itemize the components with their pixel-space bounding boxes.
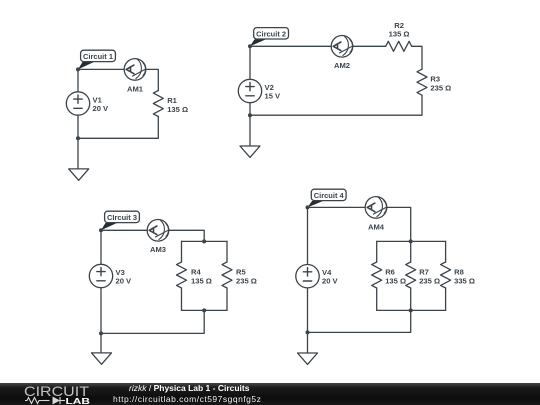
ground circuit 4 [298,353,318,364]
label Circuit 4 [308,189,347,207]
svg-text:135 Ω: 135 Ω [191,276,212,285]
wire top rail circuit3 [182,240,228,242]
wire node4 to V4 plus [307,207,309,264]
wire parallel bottom to V3 branch [101,310,204,333]
ground circuit 2 [240,146,260,157]
node junction circuit3 rail bottom [202,308,206,312]
svg-text:V2: V2 [265,83,274,92]
svg-text:135 Ω: 135 Ω [389,30,410,39]
wire node3 to V3 plus [100,230,102,264]
svg-text:R3: R3 [430,75,440,84]
resistor R2 [386,21,412,51]
node junction circuit1 top [76,67,80,71]
wire R4 bottom lead [181,288,183,310]
wire junction to ground 4 [307,332,309,353]
svg-text:20 V: 20 V [322,277,339,286]
resistor R6 [372,262,406,288]
svg-text:135 Ω: 135 Ω [385,276,406,285]
node junction circuit4 bottom-left [306,330,310,334]
wire parallel bottom to V4 branch [308,310,411,332]
svg-text:LAB: LAB [66,396,91,405]
svg-text:Circuit 2: Circuit 2 [256,30,286,39]
ammeter AM2 [331,36,353,71]
svg-text:R5: R5 [236,267,246,276]
node junction circuit3 rail top [202,239,206,243]
voltage source V1 [66,92,109,115]
voltage source V4 [296,265,339,288]
resistor R8 [441,262,475,288]
wire node2 to AM2 [250,45,331,47]
svg-text:20 V: 20 V [93,104,110,113]
wire node4 to AM4 [308,206,366,208]
ammeter AM1 [124,59,146,94]
wire R6 bottom lead [376,288,378,310]
wire R3 to bottom rail [250,95,422,115]
svg-text:CIrcuit 3: CIrcuit 3 [107,213,137,222]
svg-text:Circuit 4: Circuit 4 [314,191,345,200]
wire R2 to R3 [412,46,422,69]
wire V3 minus to junction [100,288,102,334]
voltage source V3 [89,264,132,287]
CircuitLab logo [24,384,94,405]
node junction circuit3 top-left [99,228,103,232]
label Circuit 2 [250,28,289,47]
wire node1 to V1 plus [77,69,79,91]
wire AM3 to parallel top [169,230,204,241]
ammeter AM4 [365,197,387,232]
resistor R5 [222,262,257,288]
wire R7 bottom lead [410,288,412,310]
ground circuit 1 [69,169,89,180]
wire AM4 to parallel top [387,207,411,241]
label CIrcuit 3 [101,211,139,230]
wire R6 top lead [376,241,378,262]
node junction circuit2 bottom [248,113,252,117]
svg-text:V1: V1 [93,95,103,104]
label Circuit 1 [78,50,115,69]
resistor R1 [153,91,188,117]
resistor R7 [406,262,440,288]
wire R5 bottom lead [226,288,228,310]
wire node1 to AM1 [78,68,124,70]
svg-text:V3: V3 [116,268,125,277]
svg-text:R4: R4 [191,267,201,276]
wire node2 to V2 plus [249,46,251,79]
svg-text:AM1: AM1 [127,84,144,93]
svg-text:20 V: 20 V [116,277,133,286]
voltage source V2 [238,79,281,102]
node junction circuit2 top [248,44,252,48]
svg-text:AM2: AM2 [334,61,350,70]
svg-text:R6: R6 [385,267,395,276]
wire R8 bottom lead [445,288,447,310]
wire AM2 to R2 [353,45,386,47]
node junction circuit4 rail top [409,239,413,243]
svg-text:135 Ω: 135 Ω [167,105,188,114]
svg-text:15 V: 15 V [265,92,282,101]
wire junction to ground 1 [77,138,79,169]
node junction circuit4 top-left [306,205,310,209]
wire V2 minus to junction [249,103,251,116]
wire R4 top lead [181,241,183,262]
wire R5 top lead [226,241,228,262]
svg-text:Circuit 1: Circuit 1 [83,52,113,61]
node junction circuit3 bottom-left [99,331,103,335]
wire R7 top lead [410,241,412,262]
footer bar [0,383,540,405]
wire V4 minus to junction [307,288,309,333]
ammeter AM3 [147,220,169,255]
wire R1 to bottom rail [78,117,158,139]
wire bottom rail circuit3 [182,309,228,311]
svg-text:R1: R1 [167,96,177,105]
resistor R4 [177,262,212,288]
svg-text:335 Ω: 335 Ω [454,276,475,285]
svg-text:235 Ω: 235 Ω [430,84,451,93]
wire junction to ground 3 [100,333,102,353]
wire V1 minus to junction [77,115,79,138]
svg-text:V4: V4 [322,268,332,277]
svg-text:R7: R7 [419,267,429,276]
wire AM1 to R1 [146,69,159,90]
svg-text:235 Ω: 235 Ω [236,276,257,285]
wire top rail circuit4 [377,240,446,242]
svg-text:AM3: AM3 [150,245,166,254]
wire junction to ground 2 [249,115,251,146]
svg-text:235 Ω: 235 Ω [419,276,440,285]
node junction circuit1 bottom [76,136,80,140]
svg-text:AM4: AM4 [368,222,385,231]
wire node3 to AM3 [101,229,147,231]
wire bottom rail circuit4 [377,309,446,311]
resistor R3 [417,69,451,95]
node junction circuit4 rail bottom [409,308,413,312]
ground circuit 3 [92,353,112,364]
wire R8 top lead [445,241,447,262]
svg-text:R8: R8 [454,267,464,276]
